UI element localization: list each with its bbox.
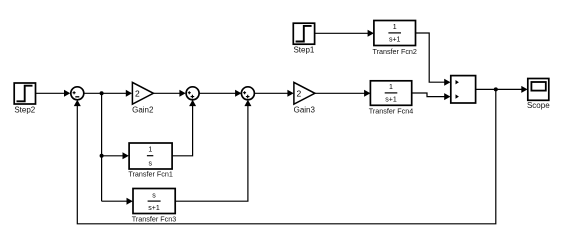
mux block [451,76,476,103]
svg-text:2: 2 [135,88,140,98]
svg-text:s+1: s+1 [389,37,401,44]
svg-text:Transfer Fcn4: Transfer Fcn4 [369,107,413,116]
junction dot at TF1 tap [100,154,104,158]
svg-text:s: s [152,192,156,199]
svg-text:Gain2: Gain2 [132,105,154,114]
transfer function block Transfer Fcn4 [370,81,411,106]
wire Sum1 to Gain2 [84,90,132,97]
svg-text:1: 1 [148,147,152,154]
svg-text:Transfer Fcn2: Transfer Fcn2 [372,47,416,56]
svg-text:Transfer Fcn1: Transfer Fcn1 [128,169,172,178]
sum junction S3 (+ west, + south) [241,87,254,100]
wire Transfer Fcn4 to Mux input 2 [412,93,451,100]
junction dot on Mux output [494,87,498,91]
svg-text:Step2: Step2 [14,105,35,114]
svg-text:s+1: s+1 [385,97,397,104]
wire Mux to Scope [476,86,528,93]
step source Step1 [293,23,314,44]
wire branch bottom to Transfer Fcn3 input [102,198,133,205]
svg-text:2: 2 [297,88,302,98]
gain Gain2 [132,82,153,104]
wire Sum2 to Sum3 [199,90,241,97]
svg-text:Step1: Step1 [293,46,314,55]
scope block Scope [528,79,549,101]
svg-text:Transfer Fcn3: Transfer Fcn3 [132,214,176,223]
svg-text:1: 1 [389,84,393,91]
svg-text:Scope: Scope [527,101,550,110]
wire Transfer Fcn2 to Mux input 1 [416,33,451,86]
svg-text:Gain3: Gain3 [294,105,316,114]
wire Step2 to Sum1 [36,90,71,97]
svg-text:1: 1 [393,24,397,31]
wire Transfer Fcn3 to Sum3 south [175,100,251,201]
sum junction S1 (+ west, - south) [71,87,84,100]
sum junction S2 (+ west, + south) [186,87,199,100]
transfer function block Transfer Fcn3 [133,189,175,214]
wire Transfer Fcn1 to Sum2 south [172,100,196,156]
transfer function block Transfer Fcn1 [129,143,172,169]
junction dot on Sum1 output [100,91,104,95]
wire tap to Transfer Fcn1 input [102,152,129,159]
wire feedback from Mux output to Sum1 south [74,89,496,223]
wire branch down to TF1 and TF3 [101,93,103,201]
wire Step1 to Transfer Fcn2 [315,30,374,37]
gain Gain3 [294,82,315,104]
wire Gain2 to Sum2 [153,90,185,97]
wire Gain3 to Transfer Fcn4 [315,90,371,97]
svg-text:s+1: s+1 [148,205,160,212]
wire Sum3 to Gain3 [254,90,293,97]
step source Step2 [14,83,35,104]
transfer function block Transfer Fcn2 [374,21,416,46]
svg-text:s: s [149,160,153,167]
